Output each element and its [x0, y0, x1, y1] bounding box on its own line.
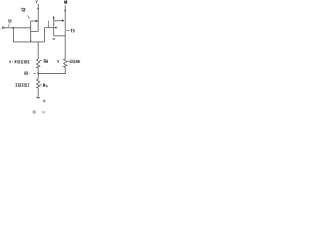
caption 図 — [33, 111, 35, 113]
node Vg label top — [36, 0, 38, 2]
wire R2 to corner — [64, 67, 67, 73]
wire gate line Q1 — [31, 20, 36, 22]
transistor Q1 gate arrowhead — [36, 20, 38, 22]
wire bias drop left — [12, 28, 14, 42]
label node mid left — [25, 72, 28, 75]
wire drop to R1 — [37, 42, 39, 59]
label near ground — [44, 100, 45, 102]
wire node to R3 — [37, 73, 39, 79]
resistor R1 zigzag — [37, 59, 40, 68]
terminal input circle — [2, 27, 4, 29]
wire out leader — [66, 29, 69, 31]
ground — [36, 97, 40, 99]
label row C right of R2 — [67, 60, 69, 62]
node junction dot on Q2 drain line — [64, 10, 66, 12]
wire R3 to ground — [37, 88, 39, 98]
wire Q1 source line — [31, 30, 39, 32]
wire drain feed Q1 — [37, 4, 39, 32]
transistor Q3 channel bar — [53, 18, 55, 35]
label 13 output — [71, 29, 74, 32]
label Rd right of R1 — [40, 60, 42, 62]
wire Q3 arrow tail — [56, 27, 57, 29]
wire input riser — [30, 21, 32, 42]
wire bias horizontal y42 — [13, 41, 44, 43]
transistor Q2 channel / right branch — [64, 5, 66, 58]
node small circle below Q3 — [53, 38, 55, 40]
label 11 input — [8, 20, 11, 23]
wire horizontal y73 — [38, 72, 66, 74]
wire Q3 source horizontal — [45, 27, 54, 29]
label terminal square top right — [64, 1, 67, 4]
leader 12 — [27, 15, 29, 18]
wire gate line Q2 — [54, 20, 62, 22]
resistor R2 zigzag — [64, 59, 67, 68]
node junction dot input — [13, 27, 15, 29]
label row A left of R1 — [10, 60, 30, 63]
wire input horizontal — [4, 27, 31, 29]
node junction dot on Q1 drain line — [37, 8, 39, 10]
resistor R3 zigzag — [37, 79, 40, 88]
leader node mid left — [29, 72, 36, 74]
transistor Q3 top arrowhead — [53, 16, 55, 19]
transistor Q2 gate arrowhead — [62, 20, 64, 22]
label small left of R2 — [57, 60, 59, 63]
node junction dot mid left — [37, 73, 39, 75]
wire R1 to node — [37, 68, 39, 73]
wire Q3 bottom horizontal — [54, 35, 65, 37]
label Rs right of R3 — [40, 84, 42, 86]
transistor Q3 side arrowhead — [54, 27, 56, 29]
wire drop x44 — [44, 28, 46, 42]
leader 11 — [8, 23, 10, 26]
caption 13 — [42, 111, 44, 113]
label 12 top — [21, 8, 25, 11]
node junction dot riser bottom — [30, 40, 31, 41]
label row B left of R3 — [15, 84, 29, 87]
wire Q3 gate plate riser — [48, 21, 50, 28]
